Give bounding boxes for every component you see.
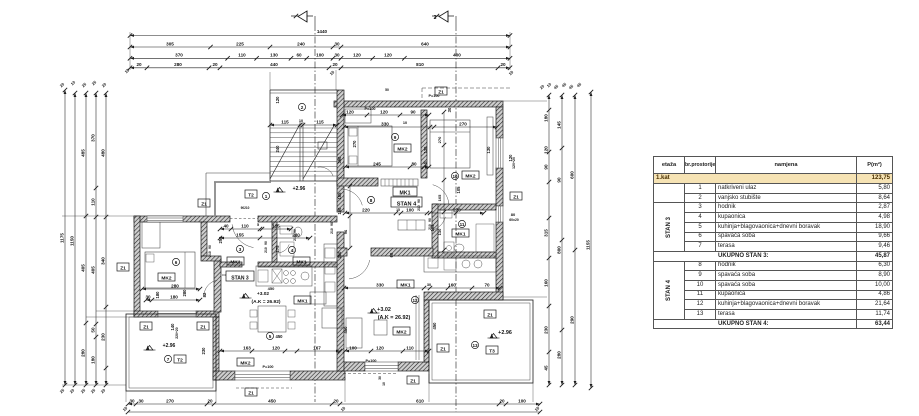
- svg-text:167: 167: [313, 345, 321, 350]
- bed room9: [348, 126, 392, 166]
- svg-text:STAN 4: STAN 4: [397, 201, 417, 207]
- svg-text:330: 330: [381, 121, 389, 126]
- svg-text:175: 175: [275, 245, 280, 253]
- svg-text:50: 50: [91, 327, 96, 333]
- svg-text:105: 105: [430, 224, 435, 232]
- wardrobe room9: [345, 109, 371, 123]
- svg-text:640: 640: [421, 41, 429, 46]
- svg-text:115: 115: [316, 119, 324, 124]
- svg-text:25: 25: [80, 387, 87, 394]
- svg-text:+3.02: +3.02: [377, 307, 391, 313]
- svg-text:90: 90: [264, 241, 268, 245]
- south wall left: [134, 311, 158, 317]
- STAN3: wall hodnik/bath / living: [220, 262, 242, 267]
- svg-text:270: 270: [459, 121, 467, 126]
- svg-text:370: 370: [175, 53, 183, 58]
- STAN3: wall between hodnik3 and bath4: [272, 222, 277, 262]
- svg-text:+2.96: +2.96: [498, 330, 512, 336]
- svg-text:160: 160: [448, 282, 456, 287]
- top dimension chains: [130, 35, 510, 37]
- svg-text:450: 450: [268, 398, 276, 403]
- svg-text:10: 10: [452, 174, 458, 179]
- stair dims: [270, 124, 337, 126]
- svg-text:MK2: MK2: [465, 173, 475, 179]
- svg-text:MK2: MK2: [161, 275, 171, 281]
- sofa STAN4: [346, 318, 362, 348]
- svg-text:20: 20: [136, 62, 142, 67]
- svg-text:230: 230: [544, 326, 549, 334]
- svg-text:Z1: Z1: [487, 312, 493, 318]
- svg-text:20: 20: [332, 62, 338, 67]
- south wall mid (STAN3): [213, 371, 235, 380]
- svg-text:5: 5: [269, 334, 272, 339]
- svg-text:100: 100: [518, 398, 526, 403]
- svg-text:50: 50: [385, 88, 389, 92]
- svg-text:280: 280: [182, 289, 187, 297]
- svg-text:210: 210: [330, 228, 334, 234]
- svg-text:340: 340: [101, 257, 106, 265]
- svg-text:110: 110: [241, 223, 249, 228]
- svg-text:20: 20: [69, 387, 76, 394]
- svg-text:290: 290: [570, 316, 575, 324]
- bed room6: [145, 252, 195, 288]
- svg-text:210: 210: [264, 247, 268, 253]
- svg-text:105: 105: [456, 186, 461, 194]
- svg-text:45: 45: [553, 83, 560, 90]
- svg-text:120: 120: [346, 109, 354, 114]
- svg-text:280: 280: [171, 283, 179, 288]
- wall hallway8 / living12: [337, 248, 347, 256]
- svg-text:225: 225: [236, 41, 244, 46]
- svg-text:20: 20: [500, 62, 506, 67]
- svg-text:210: 210: [293, 235, 297, 241]
- left dimension chains: [64, 90, 66, 385]
- svg-text:10: 10: [329, 69, 336, 76]
- level marks: [276, 188, 283, 193]
- svg-text:25: 25: [90, 387, 97, 394]
- door arcs: [232, 224, 253, 247]
- svg-text:96: 96: [343, 229, 348, 234]
- south wall right (STAN4): [339, 362, 365, 371]
- svg-text:10: 10: [70, 79, 77, 86]
- svg-text:60: 60: [389, 252, 394, 257]
- svg-text:100: 100: [316, 53, 324, 58]
- bedroom6 dims: [142, 288, 200, 290]
- east wall: [496, 107, 503, 138]
- svg-text:610: 610: [416, 398, 424, 403]
- svg-text:30: 30: [138, 398, 144, 403]
- svg-text:6: 6: [175, 260, 178, 265]
- svg-text:180: 180: [155, 291, 160, 299]
- interior vertical chains: [443, 112, 445, 250]
- dining STAN4: [374, 320, 387, 335]
- svg-text:115: 115: [281, 119, 289, 124]
- svg-text:Z1: Z1: [440, 346, 446, 352]
- svg-text:270: 270: [166, 398, 174, 403]
- svg-text:(A.K = 26.92): (A.K = 26.92): [378, 315, 411, 321]
- svg-text:5: 5: [257, 223, 259, 227]
- svg-text:3: 3: [239, 247, 242, 252]
- svg-text:1175: 1175: [60, 233, 65, 243]
- svg-text:280: 280: [174, 62, 182, 67]
- section line 2: [455, 24, 457, 412]
- svg-text:4: 4: [291, 248, 294, 253]
- svg-text:10: 10: [403, 121, 407, 125]
- svg-text:MK1: MK1: [230, 259, 240, 265]
- svg-text:1440: 1440: [317, 29, 328, 34]
- section line 1: [314, 24, 316, 402]
- central dividing wall: [337, 90, 344, 182]
- north wall right part: [334, 101, 503, 107]
- svg-text:7: 7: [167, 357, 170, 362]
- svg-text:30: 30: [334, 41, 340, 46]
- terrace T3 west wall: [424, 300, 429, 362]
- svg-text:180: 180: [91, 356, 96, 364]
- hallway wardrobe: [381, 179, 418, 186]
- svg-text:Z1: Z1: [513, 194, 519, 200]
- svg-text:110: 110: [91, 198, 96, 206]
- svg-text:MK1: MK1: [400, 190, 411, 196]
- svg-text:155: 155: [236, 232, 244, 237]
- svg-text:10: 10: [340, 405, 347, 412]
- svg-text:20: 20: [212, 62, 218, 67]
- svg-text:120: 120: [384, 53, 392, 58]
- svg-text:315: 315: [544, 229, 549, 237]
- svg-text:250: 250: [218, 236, 223, 244]
- svg-text:10: 10: [122, 405, 129, 412]
- svg-text:305: 305: [166, 41, 174, 46]
- bath11 fixtures: [444, 242, 454, 254]
- hallway shoe cabinet: [398, 220, 425, 230]
- svg-text:20: 20: [207, 398, 213, 403]
- svg-text:360: 360: [337, 156, 342, 164]
- terrace T2 outline: [126, 314, 216, 391]
- room number circles: [262, 192, 269, 199]
- svg-text:P=100: P=100: [262, 365, 273, 369]
- east windows: [496, 138, 503, 168]
- svg-text:15: 15: [396, 208, 400, 212]
- svg-text:600: 600: [570, 171, 575, 179]
- svg-text:12: 12: [412, 298, 418, 303]
- svg-text:280: 280: [557, 351, 562, 359]
- svg-text:485: 485: [81, 149, 86, 157]
- svg-text:240: 240: [275, 145, 280, 153]
- svg-text:810: 810: [416, 62, 424, 67]
- svg-text:80: 80: [411, 161, 417, 166]
- svg-text:1155: 1155: [586, 240, 591, 250]
- svg-text:2: 2: [434, 15, 437, 21]
- svg-text:1: 1: [265, 194, 268, 199]
- svg-text:1150: 1150: [70, 236, 75, 246]
- terrace T3 outline: [429, 300, 533, 383]
- svg-text:MK1: MK1: [297, 298, 307, 304]
- svg-text:145: 145: [557, 121, 562, 129]
- svg-text:MK2: MK2: [397, 146, 407, 152]
- svg-text:45: 45: [544, 365, 549, 371]
- svg-text:160: 160: [337, 207, 342, 215]
- interior dimension rows: [344, 126, 497, 128]
- svg-text:90210: 90210: [241, 206, 250, 210]
- dashed lines: [422, 87, 510, 89]
- sofa STAN3: [322, 308, 342, 328]
- svg-text:30: 30: [447, 107, 452, 112]
- svg-text:180: 180: [170, 294, 178, 299]
- svg-text:220+20: 220+20: [175, 327, 179, 339]
- svg-text:30: 30: [378, 376, 382, 380]
- svg-text:130: 130: [486, 146, 491, 154]
- svg-text:110: 110: [238, 53, 246, 58]
- svg-text:20: 20: [539, 83, 546, 90]
- stairwell outline (open external stair): [269, 90, 271, 181]
- svg-text:230: 230: [101, 333, 106, 341]
- svg-text:P=100: P=100: [365, 359, 376, 363]
- wardrobe room10: [487, 117, 493, 175]
- svg-text:MK2: MK2: [396, 329, 406, 335]
- dining STAN3: [258, 306, 286, 332]
- svg-text:30: 30: [145, 294, 151, 299]
- svg-text:40: 40: [423, 161, 427, 165]
- svg-text:60: 60: [296, 53, 302, 58]
- STAN3: wall bedroom6 / rest: [201, 222, 207, 256]
- kitchen STAN3 counter: [256, 266, 312, 286]
- svg-text:220: 220: [362, 207, 370, 212]
- svg-text:Z1: Z1: [438, 89, 444, 95]
- svg-text:120: 120: [380, 109, 388, 114]
- svg-text:130: 130: [437, 228, 442, 235]
- stair direction box: [318, 142, 327, 149]
- svg-text:105: 105: [437, 194, 442, 201]
- svg-text:20: 20: [59, 81, 66, 88]
- svg-text:Z1: Z1: [201, 201, 207, 207]
- svg-text:210: 210: [208, 251, 212, 257]
- svg-text:Z1: Z1: [410, 378, 416, 384]
- room9 south wall: [337, 178, 378, 186]
- svg-text:90: 90: [293, 229, 297, 233]
- svg-text:60x20: 60x20: [509, 218, 519, 222]
- svg-text:90: 90: [330, 222, 334, 226]
- stairs treads: [270, 127, 337, 129]
- svg-text:270: 270: [437, 136, 442, 143]
- svg-text:25: 25: [59, 387, 66, 394]
- svg-text:30: 30: [427, 283, 431, 287]
- svg-text:10: 10: [508, 69, 515, 76]
- svg-text:T2: T2: [177, 357, 183, 363]
- svg-text:480: 480: [101, 149, 106, 157]
- MK / STAN / T / Z1 boxes: [394, 144, 411, 152]
- svg-text:450: 450: [268, 286, 275, 291]
- svg-text:90: 90: [428, 218, 432, 222]
- svg-text:+2.96: +2.96: [163, 343, 176, 349]
- svg-text:+2.96: +2.96: [293, 186, 306, 192]
- svg-text:115: 115: [272, 223, 280, 228]
- svg-text:105: 105: [337, 192, 342, 200]
- bath11 north wall: [433, 204, 496, 210]
- svg-text:330: 330: [376, 282, 384, 287]
- svg-text:2: 2: [301, 105, 304, 110]
- svg-text:45: 45: [576, 81, 583, 88]
- svg-text:20: 20: [333, 398, 339, 403]
- svg-text:Z1: Z1: [143, 324, 149, 330]
- kitchen STAN3 side counter: [324, 244, 337, 306]
- svg-text:440: 440: [270, 62, 278, 67]
- svg-text:Z1: Z1: [120, 265, 126, 271]
- svg-text:45: 45: [568, 83, 575, 90]
- svg-text:120: 120: [353, 53, 361, 58]
- svg-text:250: 250: [337, 251, 342, 259]
- svg-text:163: 163: [243, 345, 251, 350]
- svg-text:(A.K = 26.92): (A.K = 26.92): [252, 299, 281, 305]
- svg-text:40: 40: [223, 223, 229, 228]
- svg-text:160: 160: [544, 279, 549, 287]
- svg-text:90: 90: [557, 177, 562, 183]
- west wall: [134, 216, 140, 317]
- north wall left part: [134, 216, 230, 222]
- svg-text:800: 800: [557, 246, 562, 254]
- svg-text:120+20: 120+20: [512, 157, 516, 169]
- svg-text:MK1: MK1: [455, 231, 465, 237]
- svg-text:13: 13: [472, 343, 478, 348]
- svg-text:230: 230: [201, 347, 206, 355]
- svg-text:245: 245: [373, 161, 381, 166]
- wardrobe room6: [142, 222, 160, 248]
- svg-text:130: 130: [423, 146, 428, 154]
- bed room10: [430, 120, 470, 168]
- svg-text:30: 30: [334, 53, 340, 58]
- porch canopy outer edge: [205, 173, 207, 216]
- terrace-side wall: [213, 317, 219, 380]
- svg-text:70: 70: [484, 282, 490, 287]
- svg-text:400: 400: [453, 53, 461, 58]
- svg-text:450: 450: [432, 322, 437, 330]
- bath4 fixtures: [280, 226, 292, 234]
- svg-text:Z1: Z1: [248, 390, 254, 396]
- svg-text:MK2: MK2: [240, 360, 250, 366]
- svg-text:30: 30: [129, 398, 135, 403]
- svg-text:450: 450: [276, 334, 284, 339]
- svg-text:P=100: P=100: [364, 107, 375, 111]
- porch canopy inner edge: [214, 182, 216, 216]
- svg-text:120: 120: [376, 345, 384, 350]
- bathroom 11 walls: [432, 204, 438, 258]
- right dimension chains: [548, 95, 550, 385]
- south wall bedroom part: [424, 292, 503, 300]
- svg-text:120: 120: [275, 96, 280, 104]
- svg-text:90: 90: [410, 109, 416, 114]
- svg-text:100: 100: [349, 345, 357, 350]
- svg-text:20: 20: [499, 398, 505, 403]
- svg-text:90: 90: [208, 245, 212, 249]
- svg-text:405: 405: [91, 266, 96, 274]
- bottom dimension chain: [128, 403, 540, 405]
- svg-text:11: 11: [460, 222, 465, 227]
- extension lines: [62, 215, 134, 217]
- kitchen STAN4 top counter: [424, 256, 496, 272]
- svg-text:240: 240: [297, 41, 305, 46]
- svg-text:20: 20: [101, 81, 108, 88]
- stair diagonals: [270, 124, 300, 179]
- svg-text:20: 20: [100, 387, 107, 394]
- svg-text:T2: T2: [248, 192, 254, 198]
- svg-text:270: 270: [453, 207, 461, 212]
- wall between bedrooms 9 and 10: [421, 110, 427, 178]
- svg-text:450: 450: [343, 326, 348, 334]
- svg-text:Z1: Z1: [200, 324, 206, 330]
- entry door gap: [230, 218, 258, 220]
- svg-text:370: 370: [91, 134, 96, 142]
- svg-text:270: 270: [352, 140, 357, 148]
- svg-text:180: 180: [544, 114, 549, 122]
- svg-text:120: 120: [272, 345, 280, 350]
- svg-text:MK1: MK1: [296, 259, 306, 265]
- svg-text:9: 9: [394, 135, 397, 140]
- svg-text:405: 405: [81, 264, 86, 272]
- svg-text:130: 130: [270, 53, 278, 58]
- window room6 north: [147, 216, 183, 222]
- svg-text:STAN 3: STAN 3: [231, 275, 249, 281]
- stair center divider: [299, 122, 301, 181]
- svg-text:82: 82: [202, 292, 207, 297]
- svg-text:MK1: MK1: [400, 282, 410, 288]
- svg-text:80: 80: [511, 212, 516, 217]
- svg-text:120: 120: [544, 146, 549, 154]
- svg-text:10: 10: [299, 119, 303, 123]
- svg-text:280: 280: [81, 349, 86, 357]
- svg-text:T3: T3: [489, 348, 495, 354]
- svg-text:90: 90: [417, 199, 421, 203]
- svg-text:10: 10: [534, 405, 541, 412]
- svg-text:100: 100: [406, 207, 414, 212]
- svg-text:110: 110: [406, 345, 414, 350]
- svg-text:25: 25: [81, 81, 88, 88]
- svg-text:10: 10: [382, 382, 386, 386]
- svg-text:25: 25: [91, 79, 98, 86]
- svg-text:210: 210: [417, 205, 421, 211]
- svg-text:+3.02: +3.02: [257, 291, 269, 297]
- svg-text:8: 8: [370, 198, 373, 203]
- svg-text:90: 90: [544, 164, 549, 170]
